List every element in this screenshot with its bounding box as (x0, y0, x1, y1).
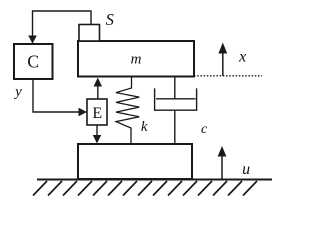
wire from sensor S to controller C (33, 11, 92, 44)
ground line (37, 179, 272, 181)
mass box m (78, 41, 194, 77)
sensor box S (79, 25, 100, 42)
spring k (116, 78, 139, 144)
svg-text:x: x (238, 48, 246, 65)
arrow x (displacement of mass) (222, 52, 224, 76)
arrowhead into E box (79, 108, 88, 116)
base box (78, 144, 192, 179)
arrow u (base excitation) (221, 155, 223, 179)
wire from C to actuator E (33, 79, 79, 112)
dotted reference line at mass bottom (194, 75, 262, 77)
svg-text:m: m (131, 52, 142, 68)
damper piston rod (top) (174, 77, 176, 99)
svg-text:S: S (106, 10, 114, 29)
ground hatching (33, 181, 257, 196)
arrowhead into C box (28, 36, 37, 44)
svg-text:k: k (141, 119, 148, 135)
controller box C (14, 44, 53, 79)
svg-text:y: y (13, 84, 22, 100)
arrow from E down to base (96, 125, 98, 136)
damper piston plate (156, 98, 196, 100)
actuator box E (87, 99, 107, 125)
svg-text:u: u (242, 161, 250, 178)
damper cylinder (155, 88, 197, 110)
damper rod (bottom) (174, 110, 176, 144)
svg-text:C: C (27, 52, 39, 72)
arrow from E up to mass (97, 86, 99, 99)
svg-text:c: c (201, 122, 208, 137)
svg-text:E: E (92, 105, 102, 122)
